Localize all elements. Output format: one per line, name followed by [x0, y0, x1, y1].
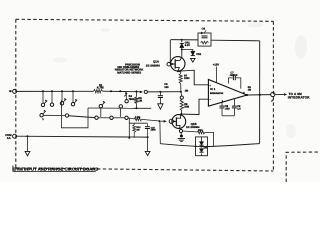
wire: RC block left drop [128, 123, 130, 138]
wire: Q1B source to R11 [183, 130, 197, 133]
wire: gate node to connector [180, 92, 183, 96]
COM feedthrough terminal on border [13, 134, 17, 138]
wire: stub to RC block [128, 118, 130, 123]
resistor R7 [179, 73, 182, 83]
wire: feedback top run [211, 39, 260, 42]
svg-text:2.2M: 2.2M [135, 116, 140, 119]
switch contact S1-2 [50, 103, 53, 106]
svg-text:6.2V: 6.2V [185, 44, 190, 47]
switch contact S2-6 [99, 105, 102, 108]
wire: R7 to gate line [180, 84, 182, 92]
svg-text:+15V: +15V [213, 64, 220, 67]
dashed border of adjacent board (bottom right corner) [286, 152, 320, 182]
wire: COM rail [17, 135, 148, 138]
svg-text:CR2: CR2 [196, 53, 202, 56]
svg-text:1M: 1M [185, 90, 189, 93]
wire: S2-3 to S2-4 [98, 117, 110, 119]
transistor Q1A source lead [175, 68, 179, 71]
transistor Q1A drain lead [175, 57, 182, 60]
wiper arrow into gate A node [140, 91, 143, 94]
op-amp IC1 body [208, 80, 247, 107]
wiper arrow at S1-4 [74, 100, 77, 103]
wire: C10 bottom stub [146, 129, 148, 138]
svg-text:IC 1: IC 1 [210, 87, 216, 91]
connector: Q1B gate circle [169, 119, 173, 123]
svg-text:1M: 1M [248, 88, 251, 91]
wire: diode chain in box [201, 137, 203, 142]
wire: stub to C5 [159, 92, 161, 96]
dashed guard/board border (right edge) [272, 21, 274, 171]
svg-text:Q1A: Q1A [153, 59, 160, 63]
capacitor C5 [158, 95, 163, 97]
capacitor C8 [220, 105, 225, 107]
wire: COM ground stub 1 [26, 136, 28, 151]
transistor Q1B drain lead [176, 115, 180, 118]
output feedthrough terminal on border [271, 92, 275, 96]
wire: C9 to bottom link [233, 108, 235, 116]
wire: C10 top stub [146, 123, 148, 126]
wire: Q1B drain to node [180, 113, 183, 116]
diode CR3 [199, 142, 203, 146]
switch contact S2-2 [65, 114, 68, 117]
wire: input bus after R1 [103, 90, 142, 93]
diode clamp box CR3 CR4 [196, 137, 208, 156]
wire: feedback to Q1A gate [169, 40, 170, 63]
capacitor C10 [145, 126, 150, 128]
wire: C8 leg [221, 102, 223, 106]
wire: Q1A source to op-amp + [178, 70, 208, 85]
wire: input bus from terminal [17, 90, 94, 92]
shield box around divider contacts [61, 100, 88, 127]
wire: tap rail from shield box [88, 107, 133, 109]
supply return symbol below Q1B [180, 133, 182, 135]
wire: S2-1 to S2-2 [43, 114, 65, 116]
svg-text:10M: 10M [184, 106, 189, 109]
dashed guard/board border (top edge) [16, 19, 274, 21]
wiper arrow at S2-6 [102, 102, 105, 105]
wire: R12 top stub [133, 123, 135, 124]
transistor Q1A body [171, 57, 185, 71]
connector: Q1B source circle [179, 129, 182, 132]
svg-text:1500: 1500 [151, 129, 157, 132]
svg-text:1M: 1M [136, 129, 139, 132]
node: stub to contact S1-3 [61, 91, 63, 101]
svg-text:INTEGRATOR: INTEGRATOR [210, 92, 224, 95]
input terminal label [9, 90, 11, 92]
input feedthrough terminal on border [13, 89, 17, 93]
transistor Q1B gate lead [173, 120, 176, 122]
node: stub to contact S1-4 [72, 91, 74, 102]
svg-text:R11: R11 [198, 129, 203, 132]
wire: S2-6 stub [100, 108, 102, 117]
node: diode midpoint [201, 146, 203, 148]
resistor R8 [180, 99, 183, 110]
transistor Q1B source lead [176, 125, 180, 128]
wire: feedback riser [259, 41, 261, 144]
resistor R12 [133, 125, 136, 133]
node: stub to resistor R5 [135, 91, 137, 96]
wire: clamp node to CR2 [182, 50, 193, 52]
wire: C7 left leg [229, 78, 233, 84]
node: stub to contact S1-5 [125, 92, 127, 100]
wire: Q1A gate line [147, 91, 181, 93]
transistor Q1B channel bar [175, 117, 177, 126]
bootstrap network box [198, 33, 211, 46]
svg-text:1/2 2N3954: 1/2 2N3954 [146, 64, 160, 67]
switch contact S2-5 [125, 116, 128, 119]
wiper arrow at S2-1 [43, 111, 46, 114]
trimmer arrow into box [204, 30, 206, 33]
node: output junction [246, 94, 248, 96]
transistor Q1B body [172, 115, 186, 129]
wiper arrow at S1-3 [63, 99, 66, 102]
wire: R12 bottom stub [133, 132, 135, 137]
transistor Q1A channel bar [174, 59, 176, 68]
svg-text:750K: 750K [129, 98, 135, 101]
switch contact S2-7 [119, 105, 122, 108]
switch contact S1-3 [60, 102, 63, 105]
scan smudges [53, 23, 307, 139]
wire: S2-7 stub [119, 108, 121, 117]
wire: RC block top link [129, 122, 147, 124]
node: stub to contact S1-1 [42, 91, 44, 103]
resistor R6 [134, 118, 142, 121]
switch contact S1-5 [125, 100, 128, 103]
wire: lower deck bus [69, 116, 95, 118]
capacitor C6 in box [202, 35, 208, 37]
wiper arrow at S1-1 [44, 101, 47, 104]
svg-text:.033: .033 [225, 108, 230, 111]
ground under C5 [158, 104, 163, 109]
svg-text:180: 180 [164, 86, 169, 89]
switch contact S2-3 [95, 116, 98, 119]
diode CR4 [199, 149, 203, 153]
transistor Q1A gate lead [171, 63, 176, 65]
capacitor C9 [232, 105, 237, 107]
dashed guard/board border (bottom edge) [16, 168, 274, 171]
svg-text:INTEGRATOR: INTEGRATOR [288, 96, 310, 100]
wire: R8 to Q1B drain node [180, 111, 182, 114]
wire: gate B clamp drop [159, 121, 161, 144]
switch contact S1-1 [41, 103, 44, 106]
svg-text:R1: R1 [99, 84, 103, 87]
wiper arrow into gate B node [164, 120, 167, 123]
wire: Q1B drain to op-amp - [181, 99, 208, 114]
ground at COM rail left [25, 151, 30, 155]
svg-text:1M: 1M [138, 100, 142, 103]
wire: R6 to gate B node [142, 119, 160, 121]
svg-text:1500: 1500 [184, 77, 190, 80]
svg-text:C6: C6 [202, 28, 206, 31]
connector: Q1A gate circle [167, 62, 171, 66]
zener CR2 [191, 51, 195, 55]
node: gate B junction [159, 120, 161, 122]
resistor R1 [94, 90, 103, 93]
zener CR1 [180, 43, 184, 47]
wire: C5 to ground [159, 98, 161, 104]
wire: +15V stub to op-amp [216, 67, 218, 83]
capacitor C7 [232, 76, 234, 81]
switch contact S1-4 [71, 103, 74, 106]
dashed guard/board border (left edge) [15, 19, 17, 168]
wire: S2-5 to R6 [128, 118, 134, 119]
wire: C7 right leg [236, 78, 241, 89]
wire: R11 to riser [205, 132, 214, 146]
wire: op-amp output [247, 94, 271, 96]
node: stub to contact S1-2 [51, 91, 53, 103]
resistor R11 [197, 131, 205, 134]
svg-text:CR: CR [204, 147, 208, 150]
node: Q1A source junction [177, 70, 179, 72]
ground under CR2 [191, 58, 196, 62]
wire: S2-4 to S2-5 [113, 117, 125, 119]
switch contact S2-4 [110, 116, 113, 119]
ground at COM rail right [145, 151, 150, 155]
resistor R5 [135, 97, 138, 104]
wire: source node to R7 [178, 71, 181, 73]
wire: output arrow [275, 94, 286, 96]
wire: R5 bottom to tap rail [135, 103, 137, 108]
wire: Q1A drain to clamp node [181, 50, 183, 57]
wire: clamp bus to feedback riser [160, 144, 259, 147]
switch contact S2-1 [40, 114, 43, 117]
svg-text:DVM INPUT AND RANGE CIRCUIT BO: DVM INPUT AND RANGE CIRCUIT BOARD [13, 166, 98, 171]
wire: COM ground stub 2 [147, 137, 149, 151]
wire: C8 to bottom link [221, 108, 223, 116]
wire: tap rail right [133, 107, 151, 109]
connector: gate A pickup circle [144, 90, 147, 93]
wire: C9 leg [233, 99, 235, 106]
wire: comp caps bottom link [222, 115, 234, 117]
svg-text:MATCHED SERIES: MATCHED SERIES [117, 71, 141, 74]
svg-text:AA: AA [7, 137, 11, 140]
connector: board pin circle [180, 96, 183, 99]
wire: feedback run to Q1A gate drop [171, 39, 198, 41]
resistor R10 in box [201, 41, 209, 44]
wiper arrow at S1-5 [124, 94, 127, 97]
